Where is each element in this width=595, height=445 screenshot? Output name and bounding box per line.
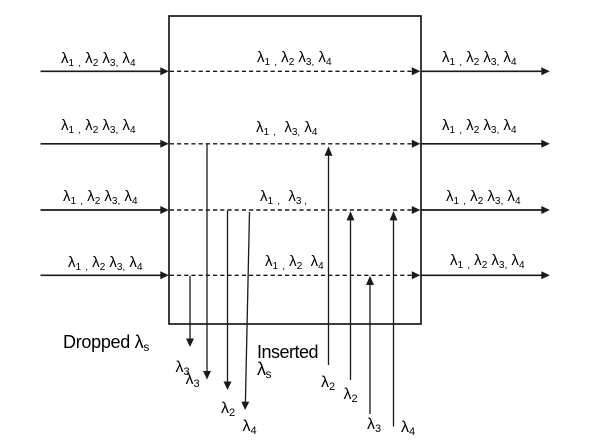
label input row 3 [63, 189, 138, 204]
dashed wire row 4 inside box [170, 271, 420, 279]
label inside row 1 [257, 50, 332, 65]
label input row 1 [61, 51, 136, 66]
drop wire 1 from row 4 [186, 276, 194, 347]
label inserted lambda3 [367, 417, 381, 433]
label inside row 2 [256, 120, 317, 135]
label dropped lambda4 [243, 419, 257, 435]
label dropped lambda2 [221, 401, 235, 417]
drop wire 4 from row 3 (slanted) [241, 212, 249, 410]
label output row 1 [442, 50, 517, 65]
dashed wire row 3 inside box [170, 206, 420, 214]
label inside row 4 [265, 254, 324, 269]
insert wire 2 to row 3 [347, 211, 355, 380]
wire input row 1 [41, 67, 169, 75]
wire output row 3 [421, 206, 550, 214]
insert wire 1 to row 2 [325, 147, 333, 366]
wire output row 4 [421, 271, 550, 279]
label output row 3 [446, 189, 521, 204]
label dropped lambda3 a [176, 360, 190, 376]
label Inserted lambdas [257, 344, 318, 378]
insert wire 3 to row 4 [366, 276, 374, 414]
wire output row 1 [421, 67, 550, 75]
wire input row 4 [41, 271, 169, 279]
label inside row 3 [260, 189, 307, 204]
wire output row 2 [421, 140, 550, 148]
wire input row 3 [41, 206, 169, 214]
wire input row 2 [41, 140, 169, 148]
label input row 4 [68, 255, 143, 270]
dashed wire row 1 inside box [170, 67, 420, 75]
label inserted lambda2 a [321, 375, 335, 391]
label Dropped lambdas [63, 334, 149, 351]
label inserted lambda2 b [344, 387, 358, 403]
label output row 2 [442, 118, 517, 133]
drop wire 3 from row 3 [224, 211, 232, 391]
label dropped lambda3 b [186, 372, 200, 388]
drop wire 2 from row 2 [203, 144, 211, 379]
label inserted lambda4 [401, 420, 415, 436]
label input row 2 [61, 118, 136, 133]
OADM box [169, 16, 421, 324]
insert wire 4 to row 3 [390, 211, 398, 426]
dashed wire row 2 inside box [170, 140, 420, 148]
label output row 4 [450, 253, 525, 268]
